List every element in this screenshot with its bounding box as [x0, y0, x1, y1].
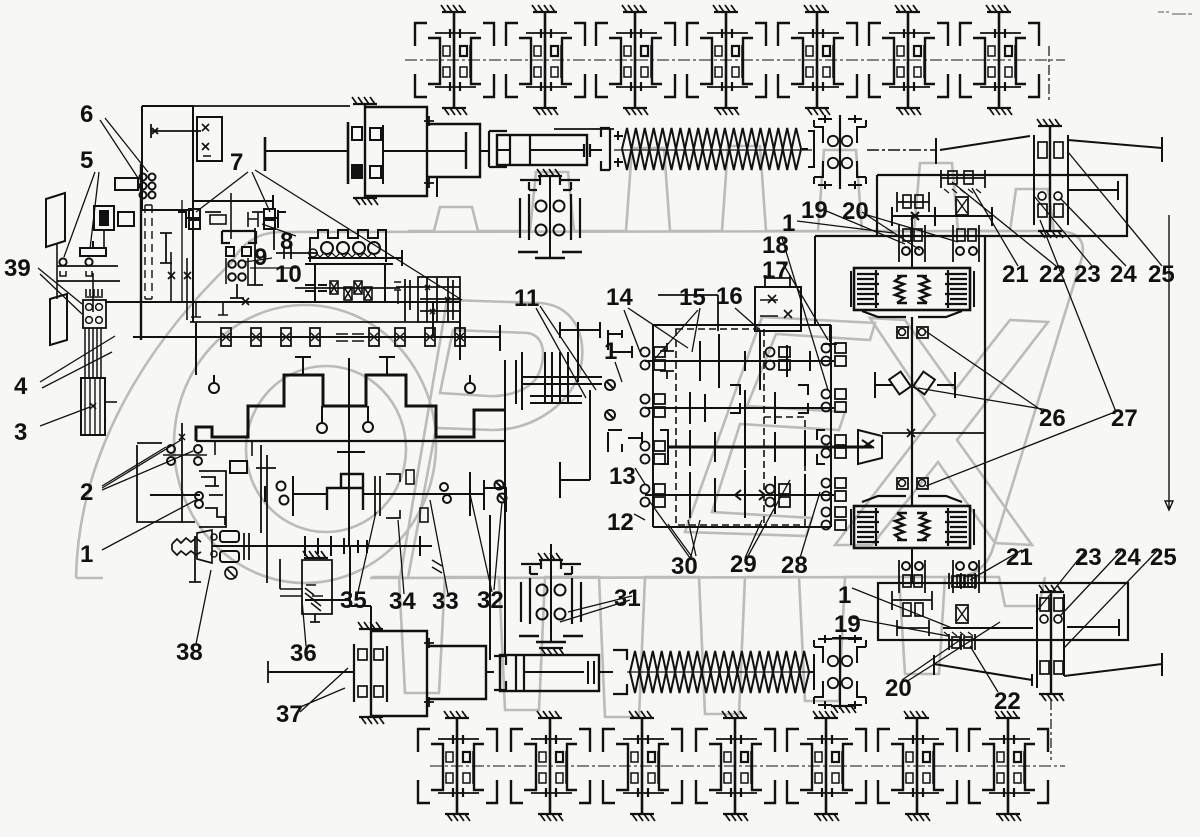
svg-text:1: 1	[782, 210, 795, 237]
svg-text:34: 34	[389, 588, 416, 615]
svg-text:12: 12	[607, 509, 634, 536]
svg-text:32: 32	[477, 587, 504, 614]
svg-text:25: 25	[1150, 544, 1177, 571]
svg-text:24: 24	[1114, 544, 1141, 571]
svg-text:17: 17	[762, 257, 789, 284]
svg-text:1: 1	[838, 582, 851, 609]
svg-text:9: 9	[254, 244, 267, 271]
svg-text:11: 11	[514, 285, 539, 312]
svg-text:20: 20	[885, 675, 912, 702]
svg-text:20: 20	[842, 198, 869, 225]
svg-text:36: 36	[290, 640, 317, 667]
svg-text:6: 6	[80, 101, 93, 128]
svg-text:21: 21	[1002, 261, 1029, 288]
svg-text:7: 7	[230, 149, 243, 176]
svg-text:1: 1	[80, 541, 93, 568]
svg-text:2: 2	[80, 479, 93, 506]
svg-text:5: 5	[80, 147, 93, 174]
svg-text:8: 8	[280, 228, 293, 255]
svg-text:19: 19	[801, 197, 828, 224]
svg-text:39: 39	[4, 255, 31, 282]
svg-text:35: 35	[340, 587, 367, 614]
svg-text:22: 22	[994, 688, 1021, 715]
svg-text:31: 31	[614, 585, 641, 612]
svg-text:26: 26	[1039, 405, 1066, 432]
svg-text:3: 3	[14, 419, 27, 446]
svg-text:1: 1	[604, 338, 617, 365]
svg-text:27: 27	[1111, 405, 1138, 432]
svg-text:10: 10	[275, 261, 302, 288]
svg-text:22: 22	[1039, 261, 1066, 288]
svg-text:19: 19	[834, 611, 861, 638]
svg-text:24: 24	[1110, 261, 1137, 288]
svg-text:33: 33	[432, 588, 459, 615]
svg-text:38: 38	[176, 639, 203, 666]
svg-text:15: 15	[679, 284, 706, 311]
svg-text:23: 23	[1075, 544, 1102, 571]
svg-text:23: 23	[1074, 261, 1101, 288]
svg-text:28: 28	[781, 552, 808, 579]
svg-text:29: 29	[730, 551, 757, 578]
svg-text:37: 37	[276, 701, 303, 728]
svg-text:16: 16	[716, 283, 743, 310]
svg-text:30: 30	[671, 553, 698, 580]
svg-text:25: 25	[1148, 261, 1175, 288]
svg-text:21: 21	[1006, 544, 1033, 571]
svg-text:13: 13	[609, 463, 636, 490]
svg-text:4: 4	[14, 373, 28, 400]
svg-text:14: 14	[606, 284, 633, 311]
